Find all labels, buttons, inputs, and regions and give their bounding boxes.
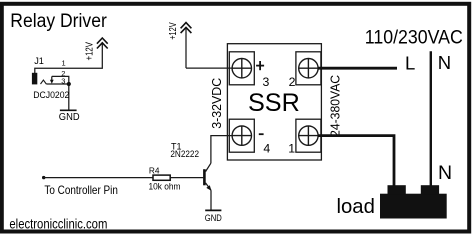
svg-text:1: 1: [288, 141, 295, 155]
svg-text:N: N: [438, 52, 451, 73]
svg-text:load: load: [337, 196, 375, 218]
svg-text:3-32VDC: 3-32VDC: [209, 78, 224, 129]
svg-text:3: 3: [263, 75, 270, 89]
svg-text:2: 2: [289, 75, 296, 89]
svg-text:R4: R4: [149, 165, 160, 175]
svg-text:2N2222: 2N2222: [170, 149, 199, 159]
svg-text:L: L: [405, 52, 415, 73]
svg-text:1: 1: [62, 59, 66, 68]
svg-text:+12V: +12V: [168, 22, 179, 40]
svg-text:10k ohm: 10k ohm: [149, 182, 181, 192]
svg-text:DCJ0202: DCJ0202: [33, 89, 69, 100]
svg-text:GND: GND: [59, 112, 80, 123]
svg-text:SSR: SSR: [248, 89, 300, 117]
svg-text:J1: J1: [34, 56, 44, 66]
svg-text:3: 3: [61, 76, 65, 85]
svg-text:24-380VAC: 24-380VAC: [328, 75, 343, 137]
svg-text:+12V: +12V: [85, 42, 96, 61]
svg-text:GND: GND: [205, 213, 222, 223]
svg-text:To Controller Pin: To Controller Pin: [44, 183, 118, 197]
svg-text:N: N: [438, 162, 452, 184]
svg-text:110/230VAC: 110/230VAC: [365, 27, 463, 48]
svg-text:Relay Driver: Relay Driver: [10, 11, 107, 32]
svg-text:electronicclinic.com: electronicclinic.com: [9, 216, 107, 232]
svg-text:4: 4: [263, 141, 270, 155]
